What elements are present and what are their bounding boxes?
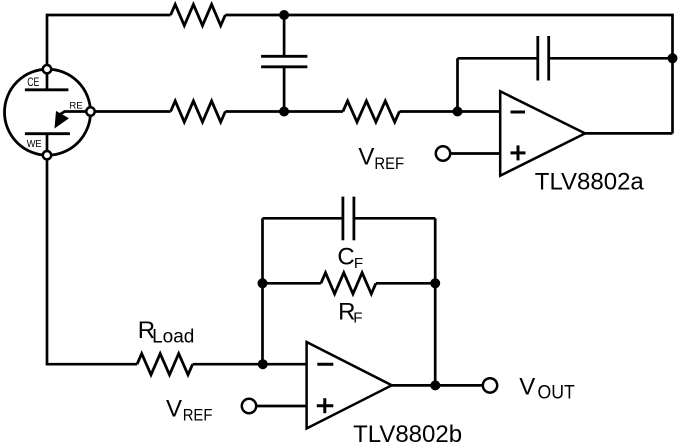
svg-text:C: C xyxy=(337,244,354,271)
wire VREF-a to U1 non-inverting input xyxy=(450,152,500,155)
node J2 junction C1 / RE rail xyxy=(279,107,289,117)
wire WE down left rail and bottom run to R_Load xyxy=(47,159,137,364)
op-amp U1 TLV8802a triangle xyxy=(500,91,585,175)
svg-text:CE: CE xyxy=(27,77,39,89)
node J7 junction RF wire right xyxy=(430,278,440,288)
wire C1 lower lead xyxy=(283,67,286,112)
wire U1 feedback vertical xyxy=(456,58,459,111)
op-amp U2 TLV8802b triangle xyxy=(307,342,392,429)
wire U1 output to right rail xyxy=(585,132,672,135)
wire U2 output xyxy=(392,384,483,387)
node J4 junction feedback / right rail xyxy=(668,53,678,63)
svg-text:REF: REF xyxy=(374,154,404,173)
cell CE electrode bar xyxy=(25,88,69,91)
node J8 junction U2 output / feedback xyxy=(430,380,440,390)
wire RF right lead xyxy=(376,282,435,285)
wire U1 feedback horizontal to C2 left plate xyxy=(458,57,538,60)
wire R_Load to U2 inverting input xyxy=(193,363,307,366)
svg-text:Load: Load xyxy=(152,326,194,347)
svg-text:V: V xyxy=(519,373,535,400)
wire top rail right segment into right rail down to op-amp output xyxy=(225,15,672,133)
resistor R2 (RE rail left) xyxy=(171,101,226,122)
wire top rail from cell CE up and across to right rail corner xyxy=(47,15,171,65)
resistor RLoad xyxy=(137,354,193,375)
node J5 junction U2 inverting input / feedback xyxy=(258,359,268,369)
svg-text:F: F xyxy=(353,309,362,326)
svg-text:V: V xyxy=(358,144,374,171)
resistor RF xyxy=(321,273,376,294)
wire VREF-b to U2 non-inverting input xyxy=(256,405,306,408)
U1 plus symbol xyxy=(511,145,526,160)
terminal VREF-b open circle xyxy=(242,399,256,413)
svg-text:F: F xyxy=(354,255,363,272)
wire C1 upper lead xyxy=(283,15,286,56)
terminal VOUT open circle xyxy=(483,378,497,392)
resistor R3 (RE rail right) xyxy=(343,101,400,122)
cell WE electrode bar xyxy=(25,132,70,135)
U2 minus symbol xyxy=(317,363,333,366)
capacitor CF xyxy=(343,197,354,241)
wire C2 right plate to right rail xyxy=(549,57,673,60)
terminal cell CE open circle xyxy=(43,65,51,73)
cell RE arrow wire xyxy=(60,112,87,115)
wire RE rail from cell RE terminal to resistor R2 xyxy=(95,110,171,113)
node J1 junction top rail / C1 tap xyxy=(279,10,289,20)
terminal cell RE open circle xyxy=(86,107,94,115)
U1 minus symbol xyxy=(511,111,526,114)
svg-text:OUT: OUT xyxy=(538,383,576,404)
wire RF left lead xyxy=(263,282,321,285)
wire CF right plate to right vertical xyxy=(354,217,435,220)
svg-text:WE: WE xyxy=(27,139,42,150)
node J3 junction U1 feedback tap xyxy=(453,107,463,117)
resistor R1 (top rail) xyxy=(171,4,226,25)
terminal cell WE open circle xyxy=(43,151,51,159)
svg-text:TLV8802b: TLV8802b xyxy=(353,421,462,445)
wire feedback-b left vertical xyxy=(261,218,264,364)
cell WE electrode stub xyxy=(46,134,49,152)
cell CE electrode stub xyxy=(46,73,49,90)
U2 plus symbol xyxy=(317,398,334,413)
cell RE arrowhead xyxy=(55,111,70,129)
svg-text:V: V xyxy=(166,395,182,422)
electrochemical sensor cell body circle xyxy=(5,69,91,155)
svg-text:RE: RE xyxy=(69,100,82,111)
capacitor C2 (U1 feedback) xyxy=(538,36,549,81)
wire RE rail between R2 and R3 xyxy=(225,110,343,113)
wire RE rail from R3 to U1 inverting input xyxy=(399,110,500,113)
svg-text:TLV8802a: TLV8802a xyxy=(535,169,645,196)
wire feedback-b top horizontal to CF left plate xyxy=(263,217,343,220)
wire feedback-b right vertical xyxy=(434,218,437,385)
capacitor C1 (between top rail and RE rail) xyxy=(261,56,307,67)
node J6 junction RF wire left xyxy=(258,278,268,288)
terminal VREF-a open circle xyxy=(436,146,450,160)
svg-text:REF: REF xyxy=(183,406,213,425)
